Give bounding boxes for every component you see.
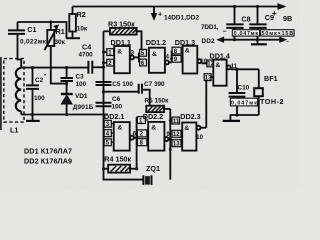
svg-text:50мк×15В: 50мк×15В <box>262 31 294 37</box>
svg-text:*: * <box>44 74 46 80</box>
svg-text:DD2: DD2 <box>202 38 215 45</box>
svg-text:DD1.4: DD1.4 <box>210 51 230 60</box>
svg-text:10к: 10к <box>77 26 88 33</box>
svg-text:C2: C2 <box>35 77 44 84</box>
svg-text:DD1.1: DD1.1 <box>111 38 131 47</box>
svg-text:VD1: VD1 <box>75 93 88 100</box>
svg-text:0,047мк: 0,047мк <box>231 100 257 106</box>
svg-text:&: & <box>117 48 122 55</box>
svg-text:&: & <box>185 48 190 55</box>
svg-text:R3 150к: R3 150к <box>108 20 135 29</box>
svg-text:C7 390: C7 390 <box>144 81 165 88</box>
svg-text:DD2.2: DD2.2 <box>143 112 163 121</box>
svg-text:12: 12 <box>207 62 214 68</box>
svg-text:&: & <box>215 62 220 69</box>
svg-text:L1: L1 <box>10 125 18 134</box>
svg-text:R4 150к: R4 150к <box>104 154 131 163</box>
svg-text:&: & <box>184 125 189 132</box>
svg-text:30к: 30к <box>55 39 66 46</box>
svg-text:R5 150к: R5 150к <box>145 98 170 105</box>
svg-text:DD1 К176ЛА7: DD1 К176ЛА7 <box>24 147 72 156</box>
svg-text:C8: C8 <box>241 14 250 23</box>
svg-text:C3: C3 <box>76 74 85 81</box>
svg-text:9В: 9В <box>283 14 292 23</box>
svg-text:Д901Б: Д901Б <box>73 104 94 111</box>
svg-text:C6: C6 <box>112 96 121 103</box>
svg-text:R1: R1 <box>56 27 65 36</box>
svg-text:C4: C4 <box>82 43 91 52</box>
svg-text:12: 12 <box>173 132 180 138</box>
svg-text:DD2.3: DD2.3 <box>180 112 200 121</box>
svg-text:−: − <box>223 26 227 35</box>
svg-text:−: − <box>286 39 289 45</box>
svg-text:C5 100: C5 100 <box>112 81 133 88</box>
svg-text:R2: R2 <box>77 10 86 19</box>
svg-text:+: + <box>272 8 277 18</box>
svg-text:100: 100 <box>76 81 87 88</box>
svg-text:100: 100 <box>34 95 45 102</box>
svg-text:4700: 4700 <box>79 52 94 59</box>
svg-text:&: & <box>117 124 122 131</box>
svg-text:&: & <box>152 51 157 58</box>
svg-text:13: 13 <box>205 76 212 82</box>
svg-text:11: 11 <box>231 64 238 70</box>
svg-text:DD2.1: DD2.1 <box>104 112 124 121</box>
svg-text:BF1: BF1 <box>264 74 278 83</box>
svg-text:+: + <box>158 9 162 18</box>
svg-text:C10: C10 <box>238 84 250 91</box>
svg-text:ТОН-2: ТОН-2 <box>260 97 284 106</box>
svg-text:&: & <box>151 124 156 131</box>
svg-text:14DD1,DD2: 14DD1,DD2 <box>164 15 199 22</box>
svg-text:13: 13 <box>173 142 180 148</box>
svg-text:DD1.2: DD1.2 <box>146 38 166 47</box>
svg-text:0,047мк: 0,047мк <box>234 31 259 37</box>
svg-text:0,022мк: 0,022мк <box>20 39 47 46</box>
svg-text:ZQ1: ZQ1 <box>146 164 160 173</box>
svg-text:C1: C1 <box>27 25 36 34</box>
svg-text:11: 11 <box>173 119 180 125</box>
svg-text:7DD1,: 7DD1, <box>201 24 219 31</box>
svg-text:10: 10 <box>196 135 203 141</box>
svg-text:100: 100 <box>112 104 123 111</box>
svg-text:DD1.3: DD1.3 <box>175 38 195 47</box>
svg-text:DD2 К176ЛА9: DD2 К176ЛА9 <box>24 157 72 166</box>
